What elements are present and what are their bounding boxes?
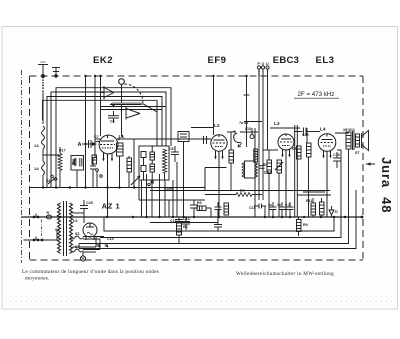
nested loop wire 3 [47, 97, 162, 188]
grid resistor R8 [297, 146, 302, 159]
IF1 main vertical [254, 128, 256, 217]
resistor R7 horizontal [205, 193, 262, 197]
wire top feed IF1 [246, 76, 248, 147]
wire osc grid 1 [101, 106, 167, 108]
chassis dash-dot outer left line [21, 70, 23, 263]
loudspeaker [362, 131, 369, 151]
svg-text:R6: R6 [197, 201, 202, 205]
wire twin link [297, 192, 331, 195]
capacitor C20 [80, 200, 88, 213]
svg-text:0.1: 0.1 [285, 203, 290, 207]
svg-text:R11: R11 [306, 199, 312, 203]
svg-text:L4: L4 [320, 127, 326, 133]
HT winding lead to AZ1 [73, 213, 97, 247]
wire osc bottom vertical d [176, 162, 178, 217]
svg-text:R: R [72, 162, 75, 166]
wire osc bottom vertical b [151, 180, 153, 217]
wire left vertical B [94, 76, 96, 158]
oscillator coil L5 [163, 149, 167, 180]
svg-text:2F = 473 kHz: 2F = 473 kHz [298, 91, 335, 98]
antenna lead-in wire [41, 74, 45, 124]
caption french [22, 269, 159, 282]
resistor R12 [320, 198, 325, 217]
svg-text:C18: C18 [333, 153, 340, 157]
capacitor on bus left [215, 202, 222, 217]
switch lever arrow [131, 176, 141, 186]
resistor R9 [297, 217, 302, 236]
dial lamp [80, 252, 85, 261]
svg-text:D: D [335, 210, 338, 214]
resistor box on bus [224, 203, 229, 215]
grid cap circle [119, 79, 125, 85]
svg-text:4x: 4x [268, 203, 272, 207]
wire left vertical A [85, 76, 87, 188]
svg-text:AZ 1: AZ 1 [102, 202, 121, 211]
svg-text:C14: C14 [183, 217, 190, 221]
capacitor C15 [254, 204, 266, 218]
dashed schematic frame top [30, 75, 364, 77]
padder capacitor C8 [171, 146, 179, 162]
svg-text:Jura 48: Jura 48 [379, 157, 394, 213]
capacitor C13 [175, 217, 183, 244]
svg-text:L6: L6 [73, 219, 77, 223]
resistor R11 [311, 198, 316, 217]
coupling capacitor C45 [294, 128, 306, 136]
mains lead lower [24, 220, 58, 242]
ground bus dots [42, 186, 135, 188]
ground bus AVC line [30, 187, 206, 189]
antenna 2 (earth arrow) [52, 68, 60, 78]
output transformer [346, 131, 360, 150]
svg-text:2x: 2x [277, 203, 281, 207]
volume potentiometer [275, 160, 283, 217]
svg-text:L1: L1 [119, 134, 125, 140]
wire EL3 anode to transformer [335, 132, 349, 133]
svg-text:C8: C8 [169, 147, 174, 151]
svg-text:S3: S3 [75, 232, 79, 236]
bottom loop wire 4 [79, 190, 356, 249]
diode D [329, 206, 334, 217]
svg-text:EL3: EL3 [316, 55, 335, 66]
bottom loop wire 2 [100, 150, 341, 238]
trimmer box C9 [178, 132, 189, 218]
wire EL3 grid row [307, 131, 320, 133]
wire osc riser [133, 139, 135, 188]
svg-text:S8: S8 [46, 179, 50, 183]
tube EBC3 [278, 134, 294, 217]
capacitor C7 [89, 139, 101, 148]
wire osc grid 3 [143, 104, 157, 112]
trimmer circle [250, 128, 254, 139]
capacitor C12 bars [260, 166, 265, 169]
capacitor C14 [182, 217, 190, 230]
wire osc bottom vertical a [141, 180, 143, 217]
wire IF to EBC3 [263, 149, 278, 151]
svg-text:C13: C13 [170, 219, 177, 223]
svg-text:R9: R9 [303, 223, 308, 227]
capacitor C16 [270, 202, 277, 217]
bus junction dots [59, 216, 364, 219]
P O U terminals [257, 66, 269, 200]
resistor R3 [229, 132, 234, 191]
oscillator box [139, 146, 169, 180]
resistor R6 horizontal [194, 206, 211, 217]
capacitor C1a under bus [214, 217, 222, 231]
tuning gang dashed arc [125, 84, 144, 103]
resistor under EK2 [92, 155, 97, 164]
svg-text:EK2: EK2 [93, 55, 113, 66]
svg-text:815: 815 [245, 127, 251, 131]
dashed schematic frame left [29, 76, 31, 260]
wire osc vertical 4 [172, 180, 174, 217]
svg-text:C7: C7 [94, 135, 99, 139]
resistor R17 [58, 147, 62, 188]
svg-text:R17: R17 [59, 149, 66, 153]
switch contact group S8 [48, 175, 57, 184]
tube AZ1 [83, 223, 97, 240]
svg-text:3/5 5/10: 3/5 5/10 [343, 128, 355, 132]
svg-text:C15: C15 [249, 206, 256, 210]
label IF frequency note [294, 91, 339, 98]
nested loop wire 1 [56, 88, 171, 188]
svg-text:1A: 1A [34, 167, 39, 171]
oscillator trimmer chain [148, 146, 155, 186]
filament winding S3 [71, 236, 104, 239]
loop risers left [78, 244, 80, 249]
wire twin vertical a [294, 125, 296, 217]
svg-text:EBC3: EBC3 [273, 55, 300, 66]
screen resistor R10 [307, 128, 312, 217]
IF1 primary coil arc [234, 131, 243, 148]
svg-text:L3: L3 [274, 121, 280, 127]
filament winding S4 [71, 249, 100, 252]
svg-text:R4: R4 [183, 225, 188, 229]
wave trap box [71, 156, 84, 188]
wire osc vertical 2 [159, 174, 161, 217]
diode load resistor R5 [267, 150, 272, 217]
power transformer secondary winding [70, 203, 73, 253]
wire top feed EF9 [213, 76, 215, 135]
svg-text:C20: C20 [86, 201, 93, 205]
nested loop wire 2 [51, 92, 166, 188]
heater run wire [150, 222, 218, 224]
power transformer primary winding [58, 203, 61, 253]
svg-text:EF9: EF9 [208, 55, 227, 66]
capacitor C6 [108, 111, 119, 123]
IF1 coil vertical small [254, 149, 258, 162]
svg-text:O: O [262, 62, 265, 66]
wire left vertical C [100, 76, 102, 136]
capacitor C17 [279, 202, 286, 217]
wire mid horizontal link [139, 199, 205, 201]
svg-text:C485: C485 [164, 188, 173, 192]
wire transformer top feed [348, 149, 350, 164]
nested loop wire 4 [43, 100, 158, 146]
svg-text:R5: R5 [263, 163, 268, 167]
wire grid cap to EK2 [121, 84, 123, 136]
svg-text:S4: S4 [75, 245, 79, 249]
svg-text:R7: R7 [240, 189, 245, 193]
oscillator padding caps left [141, 152, 146, 181]
capacitor C10 [190, 200, 198, 217]
bottom loop wire 3 [79, 164, 349, 244]
node A arrow [82, 142, 97, 146]
wire EBC3 grid return [270, 127, 300, 129]
svg-text:moyennes.: moyennes. [25, 276, 50, 282]
wire osc vertical 3 [138, 180, 140, 200]
capacitor C19a [99, 239, 101, 250]
switch contacts under EK2 [90, 158, 102, 188]
antenna 1 [38, 62, 48, 76]
resistor R2 [127, 156, 132, 188]
variable capacitor C2 [101, 86, 115, 100]
wire grid row 1 [244, 121, 262, 123]
heater arrows AZ1 [96, 243, 108, 247]
svg-text:1A: 1A [34, 144, 39, 148]
tick on IF feed [244, 94, 250, 96]
junction dots top border [84, 75, 247, 140]
wire grid row 2 [240, 131, 258, 133]
main HT bus [22, 216, 363, 218]
capacitor C11 series [204, 136, 207, 144]
dashed schematic frame bottom [30, 259, 364, 261]
AVC line right [150, 190, 330, 192]
svg-text:Wellenbereichumschalter in MW-: Wellenbereichumschalter in MW-stellung [236, 271, 334, 277]
tube EL3 [318, 134, 336, 217]
svg-text:a): a) [47, 211, 50, 215]
wire EK2 anode to EF9 [117, 138, 211, 140]
arrow pointer right border [366, 162, 375, 165]
wire EF9 grid top [191, 127, 214, 129]
gang coupling bar [112, 102, 143, 105]
wire osc vertical 1 [146, 174, 148, 217]
cathode capacitor C18 [333, 152, 341, 168]
tube EF9 [205, 135, 227, 217]
IF1 secondary box [242, 161, 258, 178]
capacitor 2x0.05 [287, 202, 294, 217]
svg-text:Le commutateur de longueur d’o: Le commutateur de longueur d’onde dans l… [22, 269, 159, 275]
svg-text:7a 85: 7a 85 [239, 121, 248, 125]
svg-text:C45: C45 [302, 133, 309, 137]
svg-text:L2: L2 [214, 123, 220, 129]
antenna coil 1A [42, 126, 62, 188]
tube EK2 [99, 135, 118, 217]
svg-text:C19: C19 [107, 237, 114, 241]
wire gang link [110, 104, 141, 106]
variable capacitor C5 [111, 103, 140, 120]
wire osc grid 2 [101, 109, 163, 111]
dashed schematic frame right [362, 76, 364, 260]
mains lead upper [24, 214, 58, 219]
wire EF9 anode link [227, 131, 236, 133]
svg-text:C22: C22 [264, 170, 272, 175]
svg-text:S1: S1 [55, 228, 60, 232]
power transformer core [64, 201, 67, 256]
coil L1 [117, 143, 124, 188]
svg-text:C6: C6 [110, 120, 115, 124]
svg-text:A: A [78, 142, 82, 148]
svg-text:R8: R8 [292, 147, 297, 151]
svg-text:U: U [266, 62, 269, 66]
svg-text:ST: ST [355, 151, 360, 155]
wire twin vertical b [296, 125, 298, 217]
bottom loop wire 1 [104, 217, 334, 231]
wire osc bottom vertical c [164, 180, 166, 217]
